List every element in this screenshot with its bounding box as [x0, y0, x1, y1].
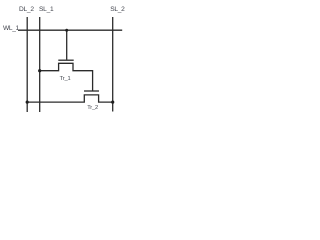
wire: gate lead of Tr_1 from WL_1: [66, 30, 68, 59]
node: junction dot Tr_1 source on SL_1: [38, 69, 41, 72]
svg-text:SL_1: SL_1: [39, 6, 54, 13]
wire: source line SL_2 vertical: [112, 17, 114, 112]
wire: data line DL_2 vertical: [26, 17, 28, 112]
node: junction dot Tr_2 drain on SL_2: [111, 101, 114, 104]
wire: source line SL_1 vertical: [39, 17, 41, 112]
transistor Tr_2 gate bar: [84, 90, 99, 92]
transistor Tr_1 channel with source/drain leads: [40, 63, 93, 91]
svg-text:DL_2: DL_2: [19, 6, 34, 13]
svg-text:WL_1: WL_1: [3, 25, 20, 32]
node: junction dot Tr_2 source on DL_2: [26, 101, 29, 104]
svg-text:Tr_1: Tr_1: [60, 76, 71, 82]
wire: word line WL_1 horizontal: [18, 29, 122, 31]
node: junction dot gate of Tr_1 on WL_1: [65, 29, 68, 32]
transistor Tr_2 channel with source/drain leads: [27, 95, 113, 102]
transistor Tr_1 gate bar: [58, 59, 73, 61]
svg-text:Tr_2: Tr_2: [87, 105, 98, 111]
svg-text:SL_2: SL_2: [110, 6, 125, 13]
